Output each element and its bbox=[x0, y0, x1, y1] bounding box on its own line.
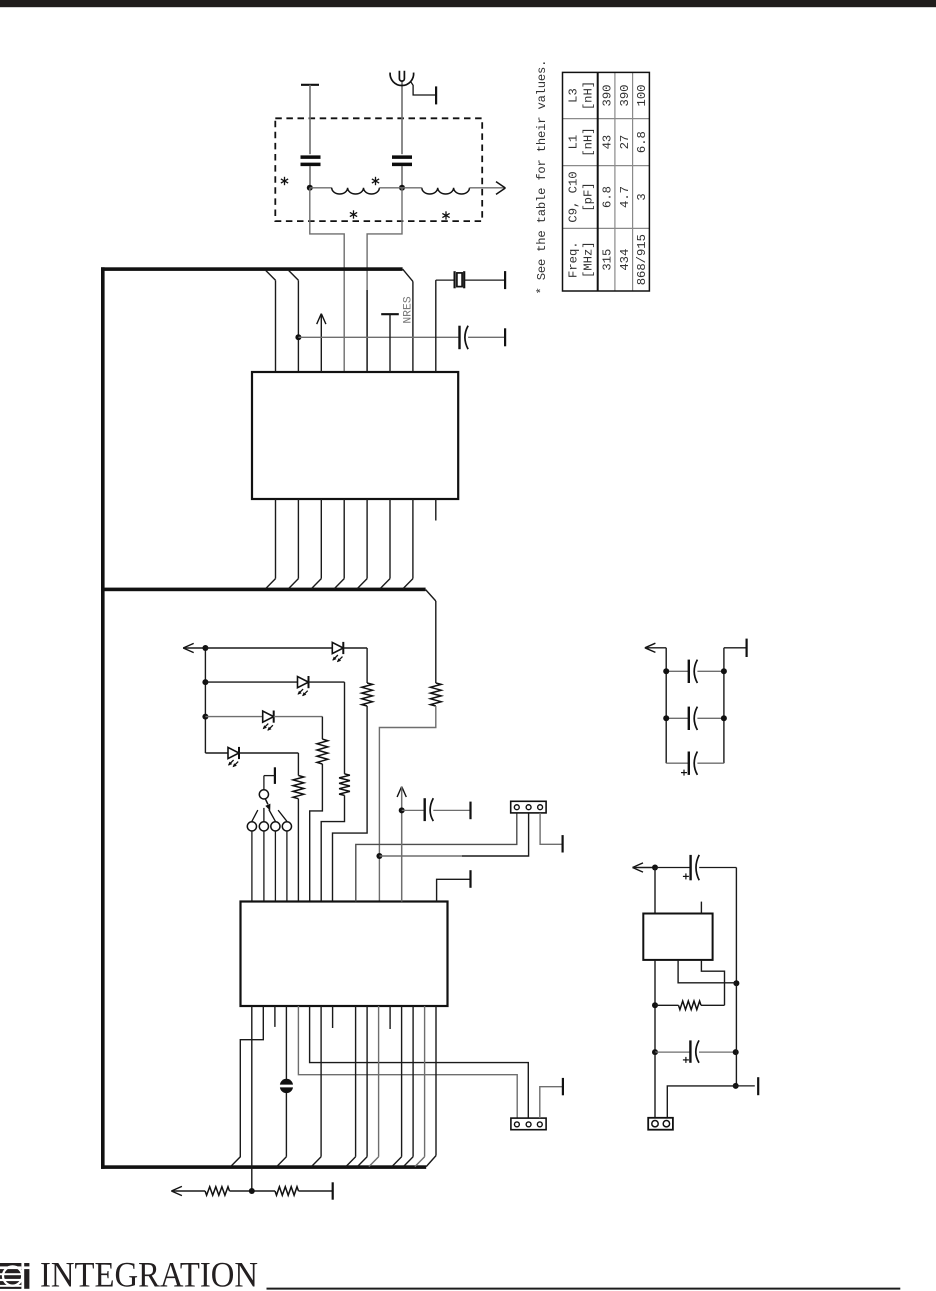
svg-text:3: 3 bbox=[635, 193, 649, 200]
svg-text:* See the table for their valu: * See the table for their values. bbox=[535, 60, 549, 295]
svg-text:315: 315 bbox=[601, 249, 615, 271]
svg-text:4.7: 4.7 bbox=[618, 186, 632, 208]
svg-text:INTEGRATION: INTEGRATION bbox=[40, 1255, 258, 1291]
svg-text:NRES: NRES bbox=[402, 296, 414, 324]
svg-text:27: 27 bbox=[618, 135, 632, 150]
svg-text:[nH]: [nH] bbox=[582, 81, 596, 110]
svg-text:390: 390 bbox=[601, 85, 615, 107]
svg-text:C9, C10: C9, C10 bbox=[567, 171, 581, 222]
svg-text:43: 43 bbox=[601, 135, 615, 150]
svg-text:390: 390 bbox=[618, 85, 632, 107]
svg-text:6.8: 6.8 bbox=[635, 131, 649, 153]
svg-text:[pF]: [pF] bbox=[582, 182, 596, 211]
svg-text:6.8: 6.8 bbox=[601, 186, 615, 208]
svg-text:[MHz]: [MHz] bbox=[582, 241, 596, 278]
svg-text:Freq.: Freq. bbox=[567, 241, 581, 278]
svg-text:434: 434 bbox=[618, 249, 632, 271]
svg-text:[nH]: [nH] bbox=[582, 127, 596, 156]
svg-text:L3: L3 bbox=[567, 88, 581, 103]
svg-text:100: 100 bbox=[635, 85, 649, 107]
svg-text:868/915: 868/915 bbox=[635, 234, 649, 285]
svg-text:L1: L1 bbox=[567, 135, 581, 150]
